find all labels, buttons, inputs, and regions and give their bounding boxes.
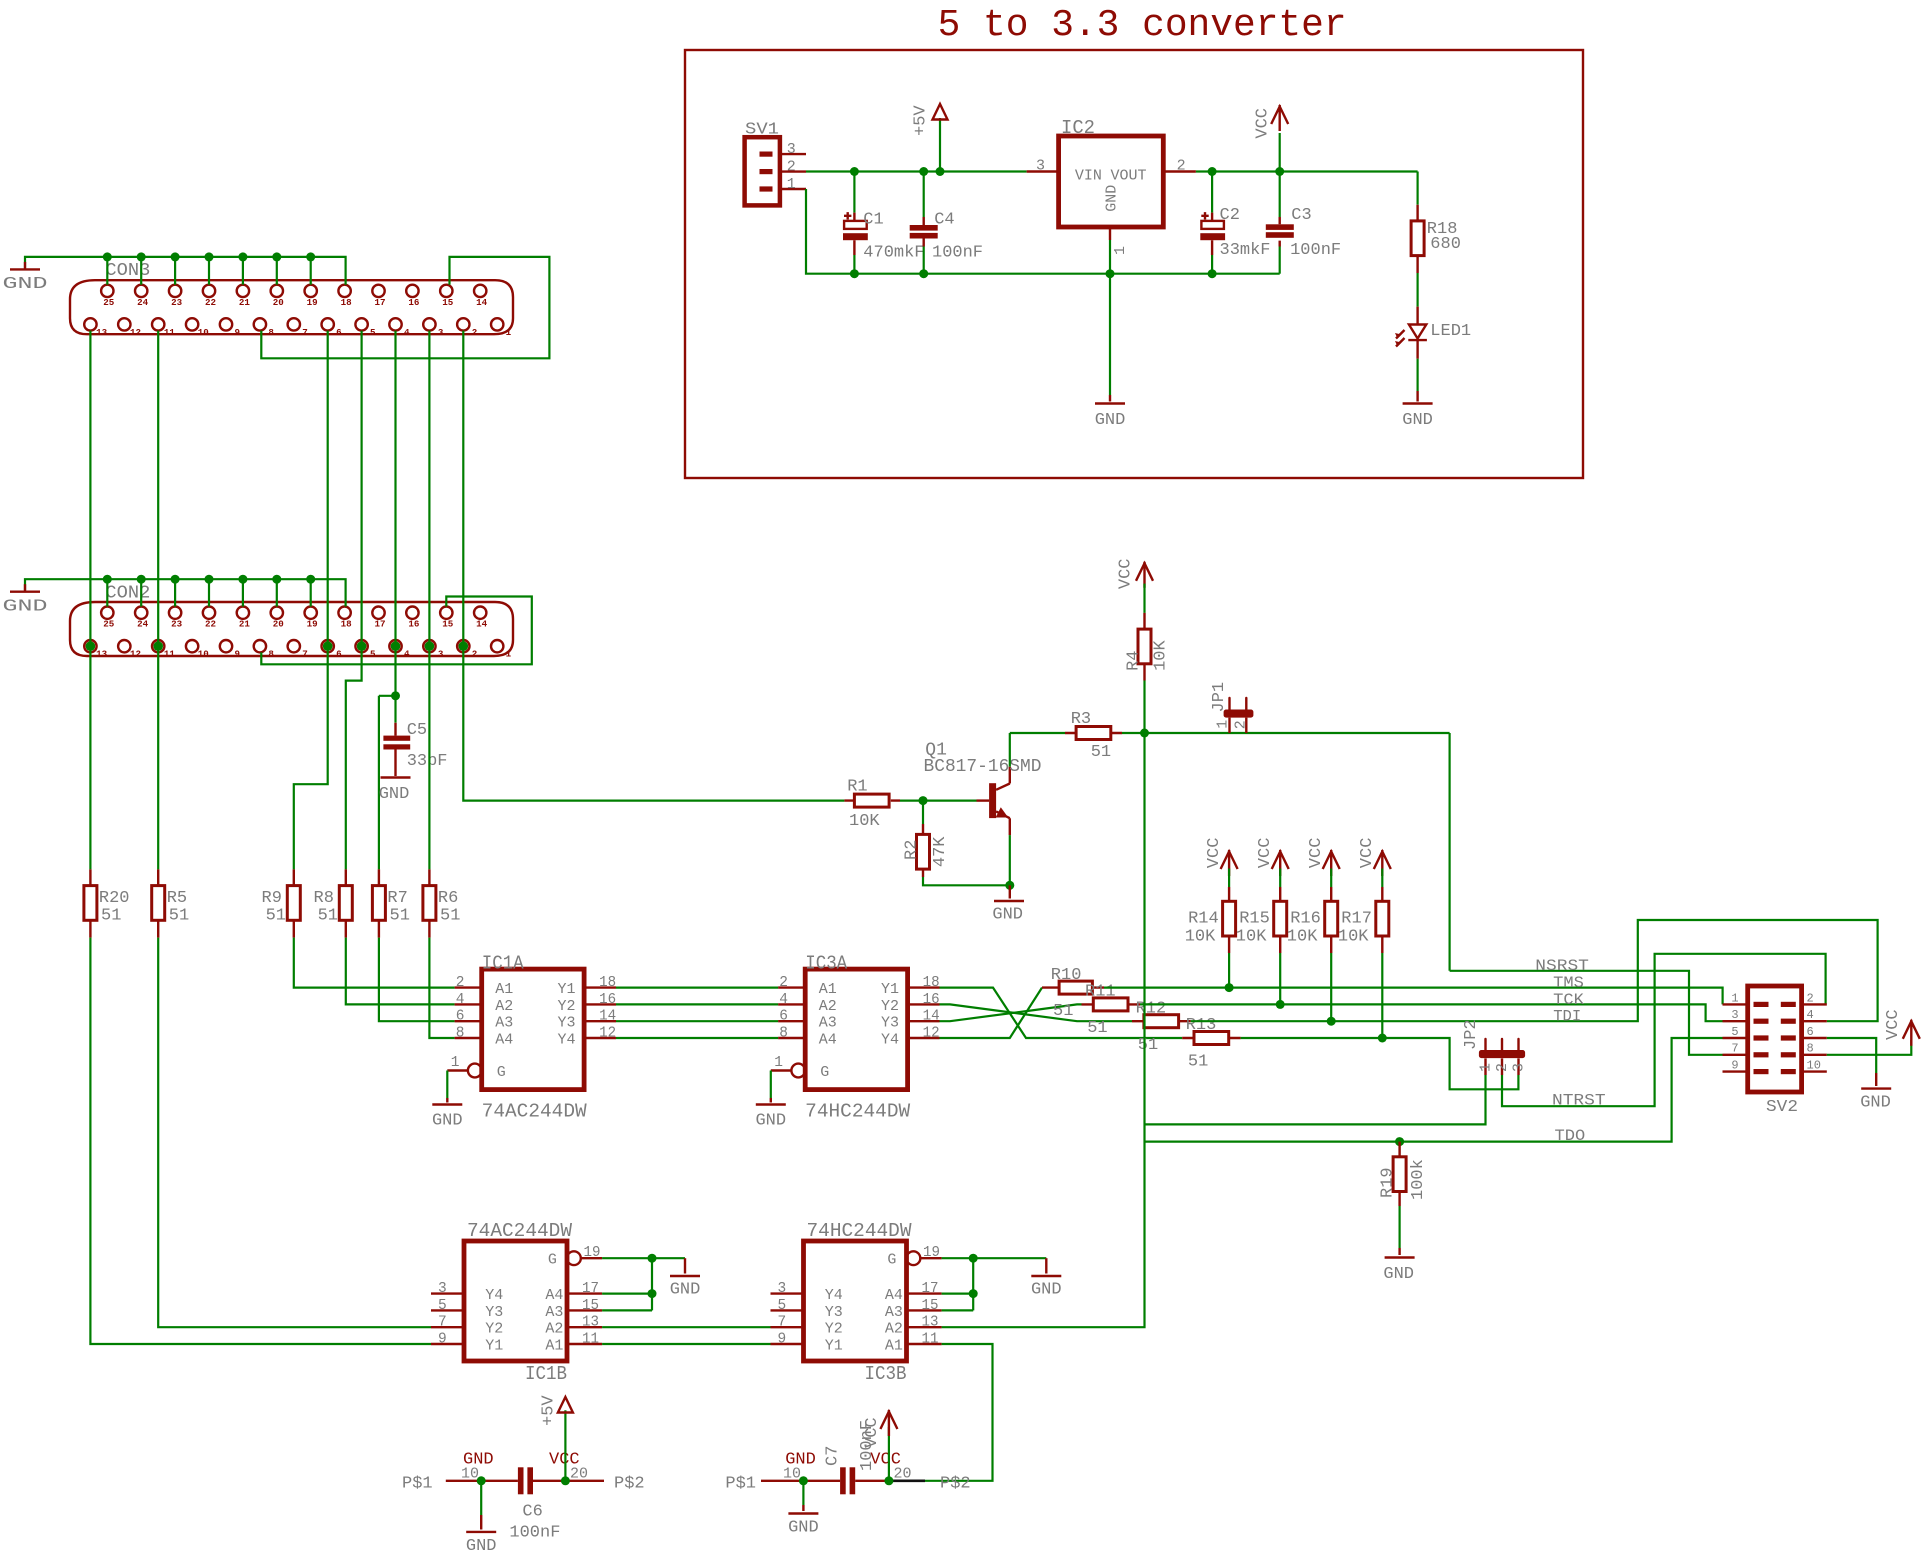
CON2 bottom row pins 13-1 [84, 640, 96, 652]
wire IC2 VOUT to VCC node [1196, 170, 1418, 172]
svg-text:14: 14 [476, 619, 488, 630]
svg-text:1: 1 [1478, 1063, 1495, 1072]
wire R4 to junction [1143, 681, 1145, 734]
svg-text:IC1A: IC1A [482, 952, 525, 974]
wire CON3 pin5 through CON2 to R8 [346, 331, 362, 870]
svg-text:470mkF: 470mkF [863, 243, 924, 262]
svg-text:2: 2 [787, 159, 796, 176]
wires IC1B A2 A1 to IC3B Y2 Y1 [602, 1326, 770, 1328]
svg-text:17: 17 [582, 1281, 599, 1297]
wire IC1A G to ground [446, 1071, 448, 1099]
svg-text:Y1: Y1 [558, 981, 576, 998]
svg-text:15: 15 [442, 619, 454, 630]
svg-text:R16: R16 [1290, 910, 1321, 929]
svg-text:A1: A1 [885, 1338, 903, 1355]
svg-text:15: 15 [922, 1298, 939, 1314]
svg-text:1: 1 [506, 649, 512, 660]
svg-text:23: 23 [171, 619, 183, 630]
NSRST wire to SV2 pin7 [1450, 971, 1723, 1055]
wire R19 to ground [1398, 1206, 1400, 1248]
node at C5 / R7 branch [391, 691, 400, 700]
svg-text:GND: GND [992, 906, 1023, 925]
svg-text:1: 1 [787, 176, 796, 193]
svg-text:14: 14 [599, 1009, 616, 1025]
svg-text:A2: A2 [885, 1321, 903, 1338]
svg-text:20: 20 [273, 297, 284, 308]
svg-text:NTRST: NTRST [1552, 1092, 1606, 1110]
svg-text:74AC244DW: 74AC244DW [482, 1100, 588, 1122]
svg-text:8: 8 [779, 1026, 788, 1042]
IC3B enable pin G with bubble [907, 1251, 921, 1265]
svg-text:Y4: Y4 [825, 1287, 843, 1304]
svg-text:18: 18 [341, 297, 353, 308]
svg-text:A3: A3 [545, 1304, 563, 1321]
svg-text:2: 2 [779, 975, 788, 991]
svg-text:15: 15 [582, 1298, 599, 1314]
wire R9 to IC1A A1 [294, 938, 455, 988]
wire IC3B pin11 down to C7 VCC node [889, 1344, 993, 1481]
svg-text:C3: C3 [1291, 206, 1311, 225]
svg-text:VCC: VCC [1256, 838, 1275, 869]
svg-text:16: 16 [408, 297, 419, 308]
svg-text:Y4: Y4 [558, 1032, 576, 1049]
svg-text:2: 2 [456, 975, 465, 991]
black net segment at C7 pin 20 [890, 1479, 925, 1482]
svg-text:R4: R4 [1124, 650, 1143, 670]
svg-text:10: 10 [198, 649, 209, 660]
svg-text:19: 19 [923, 1245, 940, 1261]
svg-text:10K: 10K [1185, 928, 1216, 947]
wire SV1 pin2 to IC2 VIN [780, 170, 806, 172]
svg-text:4: 4 [1807, 1008, 1814, 1022]
svg-text:12: 12 [923, 1026, 940, 1042]
svg-text:100k: 100k [1409, 1159, 1428, 1200]
ground symbol below C5 [381, 776, 411, 778]
svg-text:9: 9 [438, 1332, 447, 1348]
wire IC3A Y3 crossing to R11 line [940, 1004, 1082, 1021]
wire select net vertical from R4 node to IC3B pin13 [942, 733, 1145, 1327]
frame box of converter section [685, 50, 1583, 478]
resistor R8 [345, 869, 347, 937]
svg-text:A3: A3 [495, 1015, 513, 1032]
wire SV2 pin8 to VCC [1827, 1040, 1912, 1055]
svg-text:SV1: SV1 [745, 121, 779, 140]
wire IC2 GND pin to ground [1109, 240, 1111, 274]
svg-text:Y3: Y3 [825, 1304, 843, 1321]
svg-text:G: G [820, 1064, 829, 1081]
svg-text:+5V: +5V [912, 105, 931, 136]
svg-text:13: 13 [96, 649, 108, 660]
svg-text:G: G [887, 1252, 896, 1269]
wire R2 to emitter node [923, 877, 1010, 885]
svg-text:IC2: IC2 [1061, 117, 1095, 139]
ground symbol below Q1 [994, 900, 1024, 902]
resistor R1 [844, 799, 900, 801]
svg-text:17: 17 [374, 619, 385, 630]
svg-text:GND: GND [3, 597, 48, 616]
svg-text:2: 2 [1494, 1063, 1511, 1072]
IC3A enable pin G with bubble [791, 1064, 805, 1078]
svg-text:R12: R12 [1136, 999, 1167, 1018]
svg-text:6: 6 [779, 1009, 788, 1025]
svg-text:16: 16 [923, 992, 940, 1008]
connector SV2 [1748, 986, 1802, 1092]
svg-text:100nF: 100nF [509, 1524, 560, 1543]
svg-text:10K: 10K [1338, 928, 1369, 947]
svg-text:8: 8 [1807, 1042, 1814, 1056]
wire CON3 pin4 through CON2 to node with C5 [394, 331, 396, 696]
svg-text:GND: GND [379, 785, 410, 804]
svg-text:8: 8 [268, 649, 274, 660]
junction dots on VIN wire [850, 167, 859, 176]
svg-text:14: 14 [923, 1009, 940, 1025]
svg-text:16: 16 [599, 992, 616, 1008]
svg-text:15: 15 [442, 297, 454, 308]
svg-text:1: 1 [1731, 991, 1738, 1005]
svg-text:R8: R8 [314, 889, 334, 908]
svg-text:51: 51 [1188, 1053, 1208, 1072]
svg-text:A1: A1 [545, 1338, 563, 1355]
svg-text:51: 51 [1138, 1036, 1158, 1055]
VCC supply above R14 [1221, 852, 1238, 870]
svg-text:2: 2 [472, 649, 478, 660]
svg-text:3: 3 [1731, 1008, 1738, 1022]
CON3 top row pins 25-14 [101, 285, 113, 297]
svg-text:1: 1 [1112, 246, 1129, 255]
svg-text:R2: R2 [903, 840, 922, 860]
capacitor C5 [394, 696, 396, 723]
CON3 ground bus wire [25, 257, 346, 285]
resistor R14 [1228, 869, 1230, 888]
svg-text:74AC244DW: 74AC244DW [467, 1220, 573, 1242]
ground symbol at SV2 [1861, 1087, 1891, 1089]
svg-text:13: 13 [582, 1315, 599, 1331]
svg-text:4: 4 [404, 327, 410, 338]
svg-text:2: 2 [472, 327, 478, 338]
wire node to R7 [379, 696, 396, 870]
wire CON2 pin15 to pin8 loop [261, 597, 532, 665]
svg-text:5: 5 [370, 327, 376, 338]
svg-text:LED1: LED1 [1430, 322, 1471, 341]
ground symbol below R19 [1385, 1256, 1415, 1258]
svg-text:TCK: TCK [1553, 991, 1584, 1009]
svg-text:19: 19 [584, 1245, 601, 1261]
resistor R20 [89, 869, 91, 937]
svg-text:VCC: VCC [1205, 838, 1224, 869]
svg-text:A3: A3 [885, 1304, 903, 1321]
svg-text:12: 12 [130, 649, 141, 660]
svg-text:A2: A2 [819, 998, 837, 1015]
transistor Q1 BC817-16SMD [989, 783, 996, 818]
svg-text:R13: R13 [1186, 1016, 1217, 1035]
wire Q1 collector up to R3 line [1009, 835, 1011, 885]
svg-text:NSRST: NSRST [1535, 957, 1589, 975]
svg-text:3: 3 [778, 1281, 787, 1297]
resistor R15 [1279, 869, 1281, 888]
svg-text:10K: 10K [1152, 639, 1171, 670]
svg-text:A2: A2 [495, 998, 513, 1015]
svg-text:9: 9 [1731, 1059, 1738, 1073]
wires IC1A outputs to IC3A inputs [616, 986, 778, 988]
IC1B pin stubs and labels [431, 1292, 602, 1294]
svg-text:100nF: 100nF [932, 243, 983, 262]
svg-text:GND: GND [755, 1112, 786, 1131]
ground symbol below LED1 [1403, 402, 1433, 404]
VCC supply above C7 [888, 1427, 890, 1481]
resistor R4 [1143, 584, 1145, 613]
svg-text:4: 4 [779, 992, 788, 1008]
svg-text:19: 19 [307, 619, 318, 630]
svg-text:C1: C1 [863, 211, 883, 230]
svg-text:10K: 10K [1287, 928, 1318, 947]
svg-text:Y1: Y1 [825, 1338, 843, 1355]
VCC supply above R17 [1374, 852, 1391, 870]
svg-text:Y1: Y1 [485, 1338, 503, 1355]
svg-text:Y4: Y4 [485, 1287, 503, 1304]
svg-text:5: 5 [1731, 1025, 1738, 1039]
svg-text:A1: A1 [495, 981, 513, 998]
svg-text:Y3: Y3 [881, 1015, 899, 1032]
svg-text:13: 13 [96, 327, 108, 338]
resistor R9 [293, 869, 295, 937]
wire SV1 pin1 down to GND bus [806, 189, 1280, 274]
svg-text:7: 7 [1731, 1042, 1738, 1056]
svg-text:24: 24 [137, 619, 149, 630]
wire SV2 pin6 to ground [1827, 1038, 1876, 1073]
wire JP2 pin2 to NTRST [1502, 954, 1826, 1106]
ground symbol at CON2 [24, 584, 26, 591]
svg-text:51: 51 [1091, 743, 1111, 762]
resistor R16 [1330, 869, 1332, 888]
junction dots on CON2 pass-through pins [86, 641, 96, 651]
wire IC3A G to ground [770, 1071, 772, 1099]
svg-text:6: 6 [1807, 1025, 1814, 1039]
svg-text:A4: A4 [545, 1287, 563, 1304]
capacitor C2 [1211, 172, 1213, 213]
svg-text:TDO: TDO [1555, 1127, 1586, 1145]
svg-text:10K: 10K [849, 812, 880, 831]
svg-text:23: 23 [171, 297, 183, 308]
capacitor C1 [853, 172, 855, 213]
svg-text:100nF: 100nF [1290, 241, 1341, 260]
svg-text:GND: GND [1383, 1265, 1414, 1284]
wire R13 line to JP2 pin3 [1241, 1038, 1519, 1089]
svg-text:74HC244DW: 74HC244DW [807, 1220, 913, 1242]
svg-text:12: 12 [130, 327, 141, 338]
svg-text:14: 14 [476, 297, 488, 308]
svg-text:17: 17 [922, 1281, 939, 1297]
IC3B pin stubs and labels [771, 1292, 942, 1294]
svg-text:GND: GND [3, 275, 48, 294]
ground symbol below IC2 [1095, 402, 1125, 404]
svg-text:A2: A2 [545, 1321, 563, 1338]
wire R20 to IC1B Y1 pin9 [90, 938, 431, 1344]
ground symbol below IC1A G [432, 1103, 462, 1105]
resistor R10 [1042, 986, 1104, 988]
wire R6 to IC1A A4 [429, 938, 454, 1038]
connector SV1 [745, 137, 780, 205]
svg-text:33mkF: 33mkF [1220, 241, 1271, 260]
svg-text:TMS: TMS [1553, 974, 1584, 992]
IC1B enable pin G with bubble [567, 1251, 581, 1265]
resistor R3 [1065, 732, 1122, 734]
capacitor C6 block with P$1 P$2 [446, 1480, 604, 1482]
svg-text:2: 2 [1177, 157, 1186, 174]
svg-text:R20: R20 [99, 889, 130, 908]
svg-text:1: 1 [506, 327, 512, 338]
svg-text:R10: R10 [1051, 966, 1082, 985]
wire CON3 pin15 to pin8 loop [261, 257, 549, 358]
ground symbol below IC3A G [756, 1103, 786, 1105]
svg-text:10: 10 [198, 327, 209, 338]
svg-text:VCC: VCC [863, 1417, 882, 1448]
svg-text:24: 24 [137, 297, 149, 308]
ground symbol below C7 [788, 1512, 818, 1514]
svg-text:TDI: TDI [1553, 1008, 1581, 1026]
wire CON3 pin2 through CON2 to R1 [463, 331, 844, 801]
svg-text:R1: R1 [847, 777, 867, 796]
svg-text:G: G [497, 1064, 506, 1081]
wire R1 to Q1 base [900, 799, 977, 801]
svg-text:9: 9 [778, 1332, 787, 1348]
wire R5 to IC1B Y2 pin7 [158, 938, 431, 1328]
svg-text:A1: A1 [819, 981, 837, 998]
svg-text:Y2: Y2 [881, 998, 899, 1015]
wire JP2 pin1 to select net [1145, 1075, 1486, 1124]
buffer IC1A 74x244 gate A [482, 969, 584, 1090]
svg-text:51: 51 [390, 907, 410, 926]
svg-text:1: 1 [774, 1055, 783, 1071]
CON3 bottom row pins 13-1 [84, 318, 96, 330]
junction dots on GND bus [850, 269, 859, 278]
svg-text:8: 8 [268, 327, 274, 338]
VCC supply symbol at converter [1279, 133, 1281, 172]
svg-text:R11: R11 [1085, 983, 1116, 1002]
svg-text:4: 4 [456, 992, 465, 1008]
svg-text:GND: GND [670, 1281, 701, 1300]
svg-text:R15: R15 [1239, 910, 1270, 929]
svg-text:51: 51 [169, 907, 189, 926]
VCC supply above R4 [1136, 563, 1153, 581]
svg-text:VCC: VCC [1253, 108, 1272, 139]
buffer IC3B 74x244 gate B [804, 1241, 907, 1361]
jumper JP2 [1479, 1050, 1525, 1058]
connector CON3 body [70, 280, 513, 334]
ground symbol below C6 [466, 1531, 496, 1533]
svg-text:GND: GND [1104, 185, 1121, 212]
wire IC3A Y4 crossing to R10 line [940, 988, 1043, 1038]
svg-text:3: 3 [1511, 1063, 1528, 1072]
svg-text:1: 1 [1215, 720, 1232, 729]
svg-text:Y2: Y2 [485, 1321, 503, 1338]
svg-text:51: 51 [1053, 1002, 1073, 1021]
CON2 top row pins 25-14 [101, 607, 113, 619]
ground symbol at IC3B G [1031, 1275, 1061, 1277]
svg-text:C5: C5 [407, 721, 427, 740]
svg-text:P$1: P$1 [402, 1475, 433, 1494]
svg-text:2: 2 [1233, 720, 1250, 729]
svg-text:CON2: CON2 [105, 583, 150, 603]
wire JP1 node down to NSRST [1448, 733, 1450, 971]
svg-text:IC3A: IC3A [805, 952, 848, 974]
svg-text:3: 3 [438, 649, 444, 660]
IC1A pin stubs and labels [455, 986, 616, 988]
+5V supply above C6 [564, 1410, 566, 1481]
svg-text:18: 18 [341, 619, 353, 630]
svg-text:22: 22 [205, 297, 216, 308]
svg-text:VCC: VCC [1117, 558, 1136, 589]
svg-text:6: 6 [456, 1009, 465, 1025]
svg-text:VCC: VCC [1358, 838, 1377, 869]
resistor R19 [1398, 1142, 1400, 1206]
wire TMS line to SV2 pin1 [1104, 988, 1723, 1005]
svg-text:3: 3 [787, 141, 796, 158]
resistor R13 [1182, 1037, 1240, 1039]
svg-text:9: 9 [234, 327, 240, 338]
svg-text:47K: 47K [931, 836, 950, 867]
svg-text:R17: R17 [1341, 910, 1372, 929]
svg-text:8: 8 [456, 1026, 465, 1042]
svg-text:21: 21 [239, 619, 251, 630]
svg-text:R5: R5 [167, 889, 187, 908]
svg-text:R14: R14 [1188, 910, 1219, 929]
svg-text:11: 11 [922, 1332, 939, 1348]
wire C7 pin10 to ground [802, 1481, 804, 1505]
svg-text:18: 18 [599, 975, 616, 991]
svg-text:VCC: VCC [1884, 1009, 1903, 1040]
svg-text:+5V: +5V [539, 1395, 558, 1426]
resistor R11 [1082, 1003, 1141, 1005]
wire R7 to IC1A A3 [379, 938, 455, 1022]
resistor R12 [1132, 1020, 1191, 1022]
svg-text:33pF: 33pF [407, 752, 448, 771]
svg-text:6: 6 [336, 649, 342, 660]
svg-text:Y3: Y3 [558, 1015, 576, 1032]
wires pullups down to signal lines [1228, 953, 1230, 988]
capacitor C3 [1279, 172, 1281, 218]
svg-text:9: 9 [234, 649, 240, 660]
buffer IC3A 74x244 gate A [805, 969, 907, 1090]
resistor R7 [378, 869, 380, 937]
svg-text:7: 7 [438, 1315, 447, 1331]
wire CON3 pin6 through CON2 to R9 [294, 331, 328, 870]
svg-text:1: 1 [451, 1055, 460, 1071]
svg-text:R6: R6 [438, 889, 458, 908]
ground symbol at IC1B G [670, 1275, 700, 1277]
wire IC3A Y2 crossing to R12 line [940, 1004, 1133, 1021]
resistor R6 [428, 869, 430, 937]
svg-text:11: 11 [164, 327, 176, 338]
svg-text:Y3: Y3 [485, 1304, 503, 1321]
wire CON3 pin11 through CON2 to R5 [157, 331, 159, 870]
svg-text:CON3: CON3 [105, 261, 150, 281]
svg-text:GND: GND [432, 1112, 463, 1131]
VCC supply at SV2 [1903, 1021, 1920, 1039]
resistor R17 [1381, 869, 1383, 888]
svg-text:20: 20 [273, 619, 284, 630]
SV2 pin bars and stubs [1754, 1002, 1769, 1007]
svg-text:R19: R19 [1378, 1167, 1397, 1198]
svg-text:GND: GND [1402, 411, 1433, 430]
svg-text:3: 3 [1036, 158, 1045, 175]
svg-text:BC817-16SMD: BC817-16SMD [924, 757, 1042, 777]
svg-text:C2: C2 [1220, 206, 1240, 225]
svg-text:10K: 10K [1236, 928, 1267, 947]
resistor R5 [157, 869, 159, 937]
svg-text:GND: GND [785, 1450, 816, 1469]
svg-text:21: 21 [239, 297, 251, 308]
svg-text:IC1B: IC1B [525, 1363, 567, 1385]
